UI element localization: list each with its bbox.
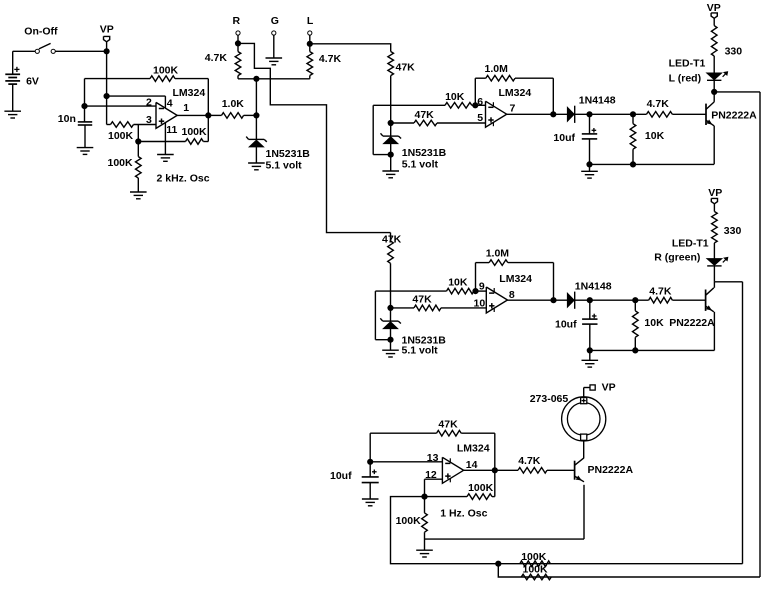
svg-text:47K: 47K	[412, 294, 432, 306]
svg-text:6V: 6V	[26, 76, 39, 88]
svg-text:R: R	[233, 15, 241, 27]
svg-text:PN2222A: PN2222A	[588, 464, 634, 476]
svg-text:100K: 100K	[153, 65, 179, 77]
svg-text:4.7K: 4.7K	[319, 53, 342, 65]
svg-text:100K: 100K	[182, 126, 208, 138]
svg-text:13: 13	[427, 452, 439, 464]
svg-text:1.0M: 1.0M	[486, 248, 510, 260]
svg-text:100K: 100K	[523, 564, 549, 576]
svg-text:LM324: LM324	[173, 87, 206, 99]
svg-text:5.1 volt: 5.1 volt	[402, 158, 439, 170]
svg-text:10n: 10n	[58, 113, 76, 125]
svg-text:VP: VP	[602, 381, 616, 393]
svg-text:10K: 10K	[445, 91, 465, 103]
svg-text:100K: 100K	[521, 551, 547, 563]
svg-text:VP: VP	[100, 23, 114, 35]
svg-text:330: 330	[725, 45, 743, 57]
svg-text:3: 3	[146, 114, 152, 126]
svg-text:LED-T1: LED-T1	[669, 57, 706, 69]
svg-text:PN2222A: PN2222A	[711, 109, 757, 121]
svg-text:LM324: LM324	[457, 442, 490, 454]
svg-text:4.7K: 4.7K	[647, 98, 670, 110]
svg-text:7: 7	[510, 102, 516, 114]
svg-text:11: 11	[166, 124, 177, 136]
svg-text:1 Hz. Osc: 1 Hz. Osc	[440, 508, 487, 520]
svg-text:5: 5	[477, 112, 483, 124]
svg-text:100K: 100K	[108, 157, 134, 169]
svg-text:8: 8	[509, 289, 515, 301]
svg-text:10uf: 10uf	[555, 319, 577, 331]
svg-text:10K: 10K	[645, 130, 665, 142]
svg-text:L (red): L (red)	[669, 73, 701, 85]
svg-text:5.1 volt: 5.1 volt	[266, 159, 303, 171]
svg-text:4.7K: 4.7K	[649, 286, 672, 298]
svg-text:1.0K: 1.0K	[222, 98, 245, 110]
svg-text:10: 10	[474, 298, 486, 310]
svg-text:LED-T1: LED-T1	[672, 238, 709, 250]
svg-text:1: 1	[183, 102, 189, 114]
svg-text:10uf: 10uf	[330, 470, 352, 482]
svg-text:330: 330	[724, 225, 742, 237]
svg-text:1N5231B: 1N5231B	[266, 148, 311, 160]
svg-text:9: 9	[479, 281, 485, 293]
svg-text:47K: 47K	[438, 419, 458, 431]
svg-text:6: 6	[477, 96, 483, 108]
svg-text:On-Off: On-Off	[24, 25, 58, 37]
svg-text:10K: 10K	[448, 277, 468, 289]
svg-text:L: L	[307, 15, 314, 27]
svg-text:1N4148: 1N4148	[579, 95, 616, 107]
svg-text:1.0M: 1.0M	[485, 63, 509, 75]
svg-text:4: 4	[167, 98, 173, 110]
svg-text:47K: 47K	[415, 109, 435, 121]
svg-text:1N4148: 1N4148	[575, 281, 612, 293]
svg-text:10uf: 10uf	[553, 132, 575, 144]
svg-text:273-065: 273-065	[530, 393, 569, 405]
svg-text:100K: 100K	[396, 515, 422, 527]
svg-text:5.1 volt: 5.1 volt	[402, 345, 439, 357]
svg-text:LM324: LM324	[499, 87, 532, 99]
svg-text:12: 12	[425, 469, 437, 481]
svg-text:2: 2	[146, 96, 152, 108]
svg-text:VP: VP	[708, 187, 722, 199]
svg-text:4.7K: 4.7K	[518, 455, 541, 467]
svg-text:4.7K: 4.7K	[205, 52, 228, 64]
svg-text:PN2222A: PN2222A	[669, 317, 715, 329]
svg-text:100K: 100K	[108, 130, 134, 142]
svg-text:2 kHz. Osc: 2 kHz. Osc	[157, 173, 210, 185]
svg-text:100K: 100K	[468, 482, 494, 494]
svg-text:14: 14	[466, 459, 478, 471]
svg-text:47K: 47K	[396, 62, 416, 74]
svg-text:R (green): R (green)	[654, 252, 700, 264]
svg-text:10K: 10K	[644, 317, 664, 329]
svg-text:G: G	[271, 15, 279, 27]
svg-text:VP: VP	[707, 2, 721, 14]
svg-text:47K: 47K	[382, 234, 402, 246]
svg-text:1N5231B: 1N5231B	[402, 147, 447, 159]
svg-text:LM324: LM324	[499, 273, 532, 285]
